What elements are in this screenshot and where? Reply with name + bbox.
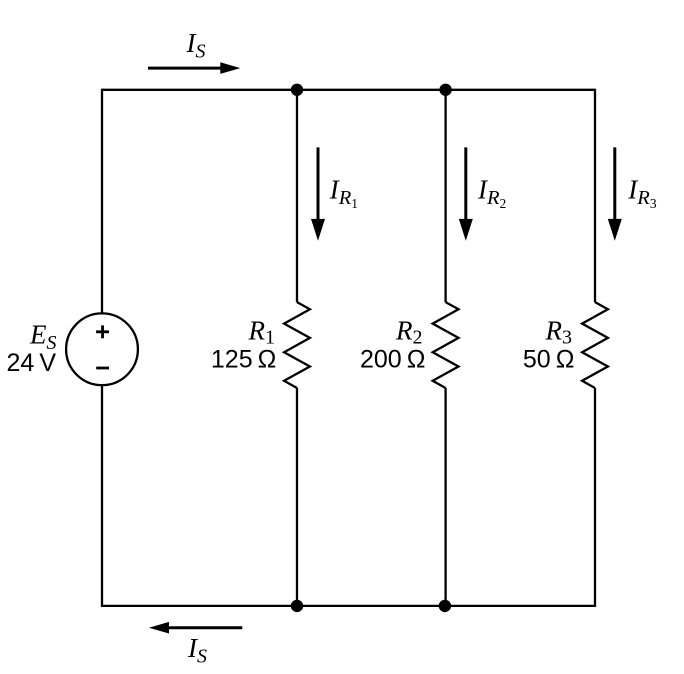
svg-text:IR2: IR2 xyxy=(477,175,506,211)
resistor R2 zigzag xyxy=(433,302,459,388)
− polarity mark inside source xyxy=(96,367,109,370)
node dot: bottom bus at R1 xyxy=(291,600,303,612)
wire: top bus (node A to node B to top-right corner) xyxy=(102,89,595,91)
svg-text:24 V: 24 V xyxy=(7,349,57,377)
node dot: top bus at R2 xyxy=(439,84,451,96)
svg-text:IR3: IR3 xyxy=(627,175,657,211)
arrow: source current I_S (bottom, pointing left) xyxy=(149,622,242,634)
arrow: source current I_S (top, pointing right) xyxy=(148,62,240,74)
svg-text:200 Ω: 200 Ω xyxy=(360,346,425,374)
voltage source E_S (circle symbol) xyxy=(66,313,138,385)
svg-text:R2: R2 xyxy=(395,315,423,348)
arrow: branch current I_R2 (pointing down) xyxy=(459,147,473,240)
resistor R1 zigzag xyxy=(284,302,310,388)
svg-text:125 Ω: 125 Ω xyxy=(211,346,276,374)
arrow: branch current I_R1 (pointing down) xyxy=(311,147,325,240)
resistor R3 zigzag xyxy=(582,302,608,388)
wire: bottom bus xyxy=(102,605,595,607)
+ polarity mark inside source xyxy=(96,325,109,338)
wire: left branch top (top bus down to source + terminal) xyxy=(101,89,103,314)
arrow: branch current I_R3 (pointing down) xyxy=(608,147,622,240)
node dot: bottom bus at R2 xyxy=(439,600,451,612)
wire: R1 branch bottom xyxy=(296,388,298,607)
svg-text:R3: R3 xyxy=(545,315,573,348)
wire: R2 branch top xyxy=(444,89,446,303)
svg-text:IS: IS xyxy=(187,633,207,668)
svg-text:50 Ω: 50 Ω xyxy=(523,346,575,374)
svg-text:IS: IS xyxy=(186,28,206,63)
wire: R3 branch top (right side) xyxy=(594,89,596,303)
svg-text:R1: R1 xyxy=(248,315,276,348)
node dot: top bus at R1 xyxy=(291,84,303,96)
wire: R2 branch bottom xyxy=(444,388,446,607)
wire: left branch bottom (source − terminal down to bottom bus) xyxy=(101,385,103,607)
wire: R3 branch bottom xyxy=(594,388,596,607)
wire: R1 branch top xyxy=(296,89,298,303)
svg-text:IR1: IR1 xyxy=(329,175,358,211)
